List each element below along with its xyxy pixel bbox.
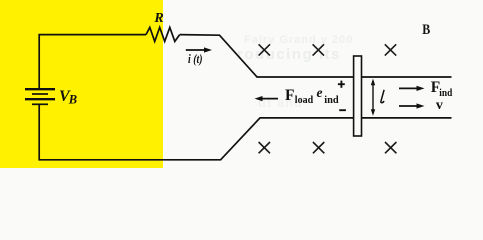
svg-text:ind: ind bbox=[324, 94, 339, 106]
svg-text:e: e bbox=[317, 85, 323, 100]
yellow highlight region bbox=[0, 0, 163, 168]
svg-text:v: v bbox=[436, 98, 443, 113]
svg-text:of the: of the bbox=[169, 98, 210, 113]
flux cross bottom row 2 bbox=[313, 142, 324, 153]
wire: battery top to corner to resistor bbox=[39, 35, 146, 89]
flux cross bottom row 1 bbox=[259, 142, 270, 153]
svg-text:Fairy Grand v 200: Fairy Grand v 200 bbox=[244, 34, 353, 46]
svg-text:F: F bbox=[285, 87, 294, 104]
current arrow i(t) bbox=[186, 47, 212, 52]
svg-text:R: R bbox=[153, 11, 163, 26]
sliding bar bbox=[354, 56, 362, 136]
polarity - bbox=[339, 109, 346, 111]
resistor R zigzag bbox=[146, 27, 180, 41]
battery VB bbox=[25, 89, 55, 104]
flux cross top row 3 bbox=[385, 44, 396, 55]
label l bbox=[381, 90, 384, 103]
svg-text:load: load bbox=[295, 95, 314, 106]
svg-text:B: B bbox=[68, 92, 77, 106]
flux cross top row 1 bbox=[259, 44, 270, 55]
flux cross top row 2 bbox=[313, 44, 324, 55]
svg-text:roducing its: roducing its bbox=[237, 46, 341, 63]
length dimension arrow l bbox=[371, 79, 375, 116]
flux cross bottom row 3 bbox=[385, 142, 396, 153]
wire: battery bottom, bottom rail and diagonal bbox=[39, 105, 451, 160]
force arrow F_ind (right) bbox=[399, 86, 425, 91]
svg-text:B: B bbox=[422, 22, 430, 38]
velocity arrow v bbox=[399, 103, 425, 108]
polarity + bbox=[338, 81, 345, 88]
force arrow F_load (left) bbox=[255, 96, 279, 101]
svg-text:forces: forces bbox=[166, 82, 211, 97]
svg-text:i (t): i (t) bbox=[188, 51, 203, 66]
wire: resistor to top diagonal bbox=[180, 35, 452, 77]
